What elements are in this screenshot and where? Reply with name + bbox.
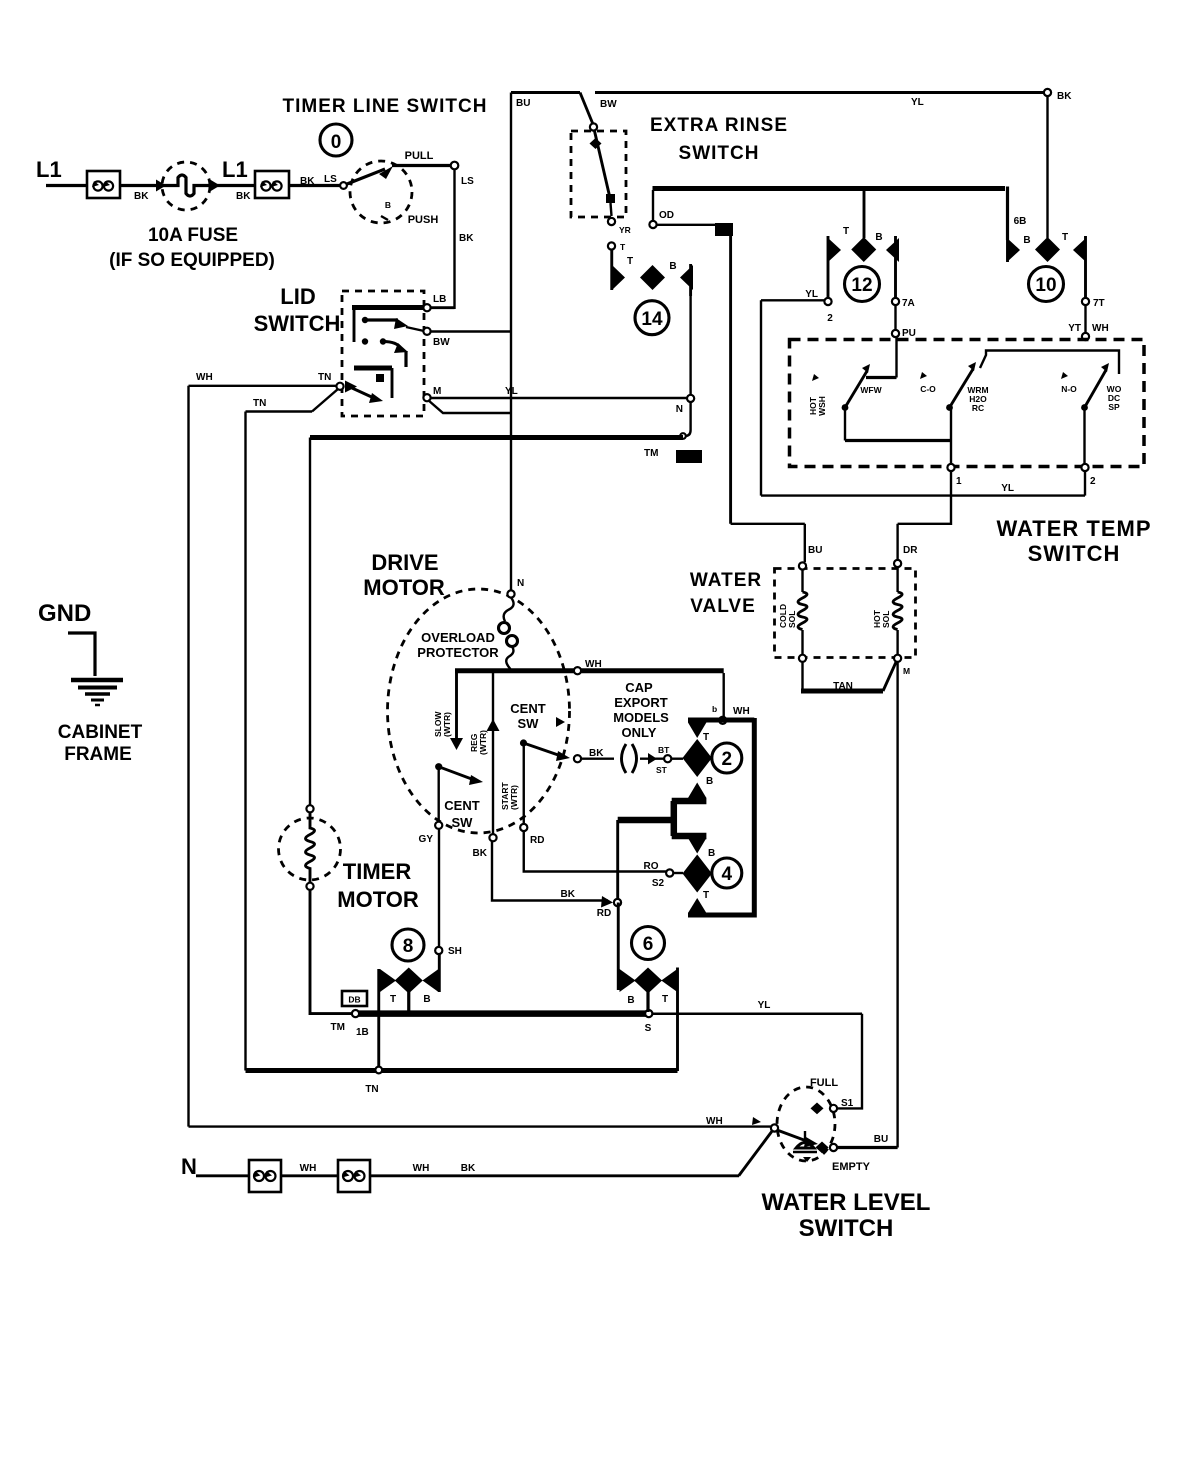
svg-text:CAP: CAP: [625, 680, 653, 695]
wt contact1 pivot: [842, 404, 849, 411]
node cent sw: [574, 755, 581, 762]
svg-text:BK: BK: [300, 176, 315, 187]
svg-text:WH: WH: [1092, 323, 1109, 334]
lid common arm diagonal: [352, 388, 376, 399]
lid inner bottom bar: [354, 366, 392, 371]
wire TM bus: [310, 435, 683, 440]
wire YL from 12 left: [761, 299, 825, 301]
empty contact dot: [816, 1142, 829, 1154]
ground bars: [71, 680, 123, 705]
circled 8: [392, 929, 424, 961]
svg-text:DB: DB: [348, 995, 360, 1005]
svg-text:YL: YL: [805, 289, 818, 300]
wire timer motor riser: [309, 438, 311, 807]
wire top rail BU/YL: [511, 91, 580, 94]
svg-text:CENT: CENT: [510, 701, 545, 716]
wire PU into box: [895, 337, 897, 378]
extra rinse switch dashed box: [571, 131, 626, 217]
switch arm to PULL: [347, 169, 385, 184]
node M: [423, 394, 430, 401]
svg-text:TM: TM: [331, 1022, 345, 1033]
node GY: [435, 822, 442, 829]
svg-text:PUSH: PUSH: [408, 214, 439, 226]
node RD start: [520, 824, 527, 831]
jog bar1: [672, 798, 707, 805]
svg-text:WH: WH: [733, 706, 750, 717]
svg-text:2: 2: [722, 749, 733, 770]
svg-text:1: 1: [956, 476, 962, 487]
svg-text:N: N: [676, 404, 683, 415]
splice label box DB: [342, 991, 367, 1006]
circled 6: [632, 927, 665, 960]
node timer motor top: [306, 805, 313, 812]
wt contact2 riser: [950, 408, 952, 441]
wire node1 elbow to valve DR: [898, 471, 951, 524]
wt contact1 fixed dot: [812, 374, 819, 381]
wire M diagonal jog: [428, 400, 511, 413]
wt contact3 arm: [1085, 370, 1107, 408]
wire BU into valve: [804, 524, 806, 562]
wire diagonal from rail: [580, 93, 593, 124]
node TN: [336, 383, 343, 390]
wire cap to diamond2: [671, 758, 683, 760]
svg-text:TIMER LINE SWITCH: TIMER LINE SWITCH: [283, 96, 488, 117]
wire vertical BU line: [510, 93, 512, 595]
lid arm 2 arrow: [394, 343, 408, 353]
svg-text:SW: SW: [452, 815, 474, 830]
node PU: [892, 330, 899, 337]
wire pivot2 down to node 1: [950, 441, 952, 465]
svg-text:GY: GY: [419, 834, 434, 845]
timer motor coil: [306, 812, 315, 884]
wire valve bottom left drop: [801, 662, 803, 691]
splice label box 151L: [676, 450, 702, 463]
svg-text:BK: BK: [561, 889, 576, 900]
wire 14 right lead down: [689, 296, 691, 395]
svg-text:T: T: [390, 994, 396, 1005]
svg-text:MOTOR: MOTOR: [363, 575, 445, 600]
svg-text:0: 0: [331, 132, 342, 153]
cent sw upper arm: [524, 743, 565, 757]
svg-text:6B: 6B: [1014, 216, 1027, 227]
node bus1 left: [352, 1010, 359, 1017]
svg-text:7A: 7A: [902, 298, 915, 309]
svg-text:B: B: [875, 232, 882, 243]
wire YL bus1 elbow down: [837, 1014, 862, 1109]
svg-text:WSH: WSH: [817, 396, 827, 416]
conn box top edge: [688, 718, 754, 723]
circled 12: [845, 267, 880, 302]
svg-text:LID: LID: [280, 284, 315, 309]
water valve dashed box: [775, 569, 916, 658]
wire bus1 thick: [359, 1010, 646, 1017]
svg-text:YL: YL: [911, 97, 924, 108]
node 7T: [1082, 298, 1089, 305]
ground lead: [68, 633, 95, 676]
svg-text:WATER: WATER: [690, 570, 762, 591]
svg-text:B: B: [1023, 235, 1030, 246]
wire BU vertical long: [729, 236, 732, 524]
water temp switch dashed box: [790, 340, 1145, 467]
svg-text:YL: YL: [505, 386, 518, 397]
cent sw upper arm arrow: [556, 751, 570, 761]
svg-text:1B: 1B: [356, 1027, 369, 1038]
conn box bottom edge: [688, 913, 756, 918]
svg-text:ST: ST: [656, 765, 668, 775]
cent sw lower drop: [438, 770, 440, 822]
svg-text:B: B: [385, 200, 391, 210]
label WO DC SP: [1107, 384, 1122, 412]
svg-text:BU: BU: [718, 225, 730, 235]
wire bus2 thick: [246, 1068, 678, 1073]
node BK top right: [1044, 89, 1051, 96]
svg-text:YR: YR: [619, 225, 631, 235]
svg-text:M: M: [903, 666, 910, 676]
lid arm 1: [365, 318, 398, 321]
wire WH horizontal: [189, 385, 338, 387]
lid inner drop thick: [404, 351, 407, 367]
pressure dome symbol: [793, 1131, 817, 1162]
node LB: [423, 304, 430, 311]
svg-text:T: T: [620, 242, 626, 252]
svg-text:B: B: [706, 776, 713, 787]
wire start to diamond 4: [524, 831, 666, 872]
node N on 14 lead: [687, 395, 694, 402]
svg-text:OVERLOAD: OVERLOAD: [421, 630, 495, 645]
lid contact dot 2: [362, 338, 368, 344]
svg-text:10A FUSE: 10A FUSE: [148, 225, 238, 246]
node SH: [435, 947, 442, 954]
drive motor dashed circle: [388, 589, 570, 833]
node empty: [830, 1144, 837, 1151]
svg-text:TN: TN: [318, 372, 331, 383]
cent sw upper pivot: [520, 739, 527, 746]
hot solenoid coil: [872, 567, 902, 655]
arrow TN into box: [345, 381, 357, 393]
svg-text:OD: OD: [659, 210, 674, 221]
svg-text:2: 2: [827, 313, 833, 324]
wire BK to timer line switch: [289, 184, 340, 187]
cent sw upper fixed dot: [556, 717, 565, 727]
node YL 2: [824, 298, 831, 305]
lid arm 1 tip link: [406, 327, 424, 331]
svg-text:BU: BU: [516, 98, 530, 109]
node LS: [340, 182, 347, 189]
wire BK to fuse: [120, 184, 166, 187]
wt contact2 arm tip: [968, 362, 976, 371]
svg-text:VALVE: VALVE: [690, 596, 756, 617]
jog diamond2 bottom: [694, 796, 701, 801]
wt contact3 arm tip: [1101, 363, 1109, 372]
svg-text:N: N: [181, 1154, 197, 1179]
splice label box BU: [715, 223, 733, 236]
lid common arm arrow: [369, 393, 383, 403]
svg-text:MODELS: MODELS: [613, 710, 669, 725]
svg-text:BU: BU: [808, 545, 822, 556]
wire 12 top lead: [863, 191, 866, 239]
svg-text:BK: BK: [473, 848, 488, 859]
node S1: [830, 1105, 837, 1112]
wire WH rail corner to box: [723, 673, 725, 717]
cent sw lower arm: [439, 767, 477, 781]
node TN bus2: [375, 1067, 382, 1074]
wire 10 right lead down: [1084, 305, 1086, 333]
svg-text:10: 10: [1035, 275, 1056, 296]
svg-text:BW: BW: [433, 337, 450, 348]
wire reg down and right: [492, 841, 608, 901]
start winding: [500, 746, 524, 824]
svg-text:SH: SH: [448, 946, 462, 957]
node pivot water level: [771, 1124, 778, 1131]
svg-text:T: T: [662, 994, 668, 1005]
svg-text:YT: YT: [1068, 323, 1081, 334]
svg-text:FULL: FULL: [810, 1077, 838, 1089]
svg-text:FRAME: FRAME: [64, 744, 132, 765]
connector diamond 4: [683, 838, 716, 913]
svg-text:DRIVE: DRIVE: [371, 550, 438, 575]
connector plug P4: [338, 1160, 370, 1192]
wire DR into valve: [896, 524, 898, 560]
wt pivot1 drop: [844, 408, 846, 441]
svg-text:(WTR): (WTR): [442, 712, 452, 737]
connector diamond 10: [1007, 191, 1086, 299]
connector diamond 12: [828, 226, 899, 298]
svg-text:WH: WH: [300, 1163, 317, 1174]
svg-text:151L: 151L: [679, 452, 698, 462]
svg-text:DR: DR: [903, 545, 918, 556]
wire LB to BK vertical: [430, 306, 455, 309]
node RD mid: [614, 899, 621, 906]
svg-text:SWITCH: SWITCH: [254, 311, 341, 336]
arrow on BK wire: [601, 896, 613, 908]
cold solenoid coil: [778, 569, 807, 655]
node BW: [423, 328, 430, 335]
node cap out: [664, 755, 671, 762]
label WRM H2O RC: [967, 385, 988, 413]
svg-text:WH: WH: [413, 1163, 430, 1174]
connector diamond 2: [683, 723, 714, 799]
wire WH waterlevel: [189, 1125, 772, 1127]
svg-text:MOTOR: MOTOR: [337, 887, 419, 912]
svg-text:TAN: TAN: [833, 681, 853, 692]
svg-text:CENT: CENT: [444, 798, 479, 813]
circled 0: [320, 124, 352, 156]
svg-text:WH: WH: [585, 659, 602, 670]
lid arm 1 arrow: [394, 318, 408, 329]
svg-text:SW: SW: [518, 716, 540, 731]
svg-text:RD: RD: [597, 908, 611, 919]
contact dot extra rinse: [590, 138, 602, 149]
svg-text:TIMER: TIMER: [343, 859, 412, 884]
wt contact2 pivot: [946, 404, 953, 411]
wire BW to BU vertical: [430, 330, 511, 332]
svg-text:14: 14: [641, 309, 663, 330]
node YR: [608, 218, 615, 225]
svg-text:WFW: WFW: [860, 385, 882, 395]
lid inner drop 2: [391, 368, 394, 398]
svg-text:ONLY: ONLY: [622, 725, 657, 740]
cent sw lower pivot: [435, 763, 442, 770]
svg-text:N: N: [517, 578, 524, 589]
label CAP EXPORT MODELS ONLY: [613, 680, 669, 740]
switch arm extra rinse: [595, 131, 611, 198]
wire valve to water level BU: [896, 662, 898, 1148]
node REG BK: [489, 834, 496, 841]
svg-text:8: 8: [403, 936, 414, 957]
svg-text:TM: TM: [644, 448, 658, 459]
node T: [608, 242, 615, 249]
wire N diagonal to pivot: [739, 1131, 773, 1176]
node timer motor bottom: [306, 883, 313, 890]
node valve bottom left: [799, 655, 806, 662]
node diamond4 left: [666, 869, 673, 876]
svg-text:4: 4: [722, 864, 733, 885]
svg-text:B: B: [627, 995, 634, 1006]
svg-text:B: B: [423, 994, 430, 1005]
tick T waterlevel: [752, 1117, 761, 1125]
wire rail2 corner down: [1006, 187, 1009, 241]
node YT WH on water temp box: [1082, 333, 1089, 340]
svg-text:BK: BK: [134, 191, 149, 202]
junction arrow: [156, 180, 166, 192]
wt contact2 arm: [950, 369, 974, 408]
svg-text:TN: TN: [253, 398, 266, 409]
lid contact dot 1: [362, 317, 368, 323]
svg-text:LS: LS: [461, 176, 474, 187]
svg-text:LS: LS: [324, 174, 337, 185]
svg-text:SOL: SOL: [881, 611, 891, 628]
wire BU empty: [837, 1146, 898, 1149]
svg-text:BK: BK: [236, 191, 251, 202]
svg-text:RC: RC: [972, 403, 984, 413]
connector diamond 8: [379, 950, 440, 1068]
wt fixed dot C-O: [920, 372, 927, 379]
svg-text:12: 12: [851, 275, 872, 296]
node 7A: [892, 298, 899, 305]
cent sw lower arm arrow: [469, 775, 483, 785]
node 1: [947, 464, 954, 471]
svg-text:L1: L1: [36, 157, 62, 182]
svg-text:RD: RD: [530, 835, 544, 846]
svg-text:EMPTY: EMPTY: [832, 1161, 871, 1173]
lid lower contact square: [376, 374, 384, 382]
wire node2 to YL line: [1084, 471, 1086, 496]
wire GY down to SH: [438, 829, 440, 947]
wire fuse to connector 2: [206, 184, 256, 187]
wire OD to BU box: [656, 224, 716, 226]
wire motor rail WH: [455, 668, 724, 673]
wt contact1 arm: [845, 371, 867, 408]
wire TN horizontal: [246, 410, 313, 412]
wire OD drop: [652, 190, 654, 221]
wire pivot3 down to node 2: [1083, 410, 1085, 464]
wire TAN bar: [801, 689, 883, 694]
svg-text:7T: 7T: [1093, 298, 1105, 309]
connector plug P1: [87, 171, 120, 198]
wire bus1 thin right: [652, 1013, 862, 1015]
svg-text:BU: BU: [874, 1134, 888, 1145]
svg-text:PU: PU: [902, 328, 916, 339]
wire L1 to connector: [46, 184, 88, 187]
wire to capacitor: [581, 758, 614, 760]
junction arrow 2: [210, 180, 220, 192]
wt fixed dot N-O: [1061, 372, 1068, 379]
wire TN diagonal to node: [312, 389, 338, 412]
node WH motor: [574, 667, 581, 674]
circled 2: [712, 743, 742, 773]
svg-text:T: T: [703, 890, 709, 901]
wt contact3 pivot: [1081, 404, 1088, 411]
wire YL vertical: [760, 300, 762, 495]
svg-text:S2: S2: [652, 878, 665, 889]
svg-text:TN: TN: [365, 1084, 378, 1095]
svg-text:WH: WH: [196, 372, 213, 383]
svg-text:(IF SO EQUIPPED): (IF SO EQUIPPED): [109, 250, 275, 271]
svg-text:SWITCH: SWITCH: [799, 1215, 894, 1242]
svg-text:C-O: C-O: [920, 384, 936, 394]
svg-text:BT: BT: [658, 745, 670, 755]
svg-text:(WTR): (WTR): [478, 730, 488, 755]
svg-text:BK: BK: [1057, 91, 1072, 102]
svg-text:SWITCH: SWITCH: [679, 143, 760, 164]
reg winding: [469, 671, 500, 834]
svg-text:PROTECTOR: PROTECTOR: [417, 645, 499, 660]
node LS right: [451, 162, 459, 170]
jog bar3 arrow base: [672, 833, 707, 840]
fuse F1 10A dashed circle: [162, 162, 210, 210]
svg-text:SWITCH: SWITCH: [1028, 541, 1121, 566]
svg-text:T: T: [703, 732, 709, 743]
svg-text:WATER LEVEL: WATER LEVEL: [762, 1189, 931, 1216]
node extra rinse top: [590, 123, 597, 130]
lid switch dashed box: [342, 291, 424, 416]
connector diamond 14: [612, 250, 693, 296]
svg-text:YL: YL: [758, 1000, 771, 1011]
wire 14 lead to TM bus hook: [685, 402, 691, 436]
svg-text:BK: BK: [461, 1163, 476, 1174]
svg-text:B: B: [708, 848, 715, 859]
connector diamond 6: [618, 903, 677, 1072]
jog vertical: [671, 801, 678, 836]
node WH conn box: [719, 717, 726, 724]
wt bar to contact2: [845, 439, 951, 442]
slow winding: [433, 671, 463, 750]
wire TN vertical long: [244, 412, 246, 1071]
hook node: [680, 433, 686, 439]
lid arm 2: [383, 342, 401, 349]
svg-text:WH: WH: [706, 1116, 723, 1127]
svg-text:SP: SP: [1108, 402, 1120, 412]
full contact dot: [811, 1103, 824, 1115]
wire BU elbow right: [731, 523, 805, 525]
node 2: [1081, 464, 1088, 471]
svg-text:T: T: [627, 256, 633, 267]
wire YL lid to 14 lead: [431, 397, 688, 399]
connector plug P2: [255, 171, 289, 198]
circled 4: [712, 858, 742, 888]
lid inner riser: [353, 308, 356, 343]
lid contact dot 3: [380, 338, 386, 344]
wire 7A to PU: [894, 305, 896, 330]
timer line switch dashed circle: [350, 161, 412, 223]
svg-text:T: T: [1062, 232, 1068, 243]
overload protector: [499, 598, 518, 671]
arm arrowhead: [379, 166, 393, 179]
wire timer motor to bus1: [310, 890, 352, 1014]
arm lower segment: [611, 203, 612, 216]
push contact mark: [381, 216, 388, 220]
svg-text:LB: LB: [433, 294, 446, 305]
